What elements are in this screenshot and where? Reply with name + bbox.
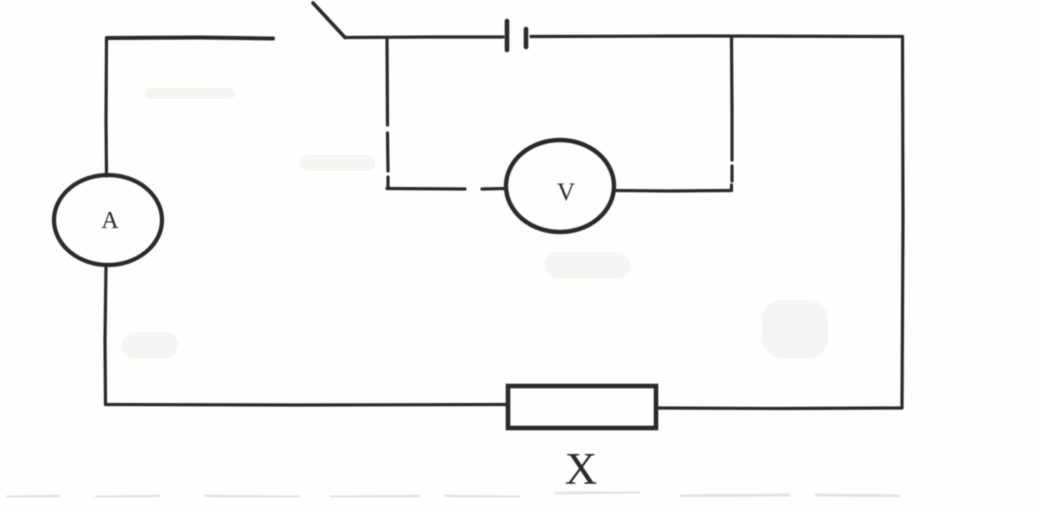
voltmeter V1	[506, 140, 614, 232]
wire right vertical	[902, 37, 903, 409]
wire voltmeter-branch left horizontal	[387, 187, 505, 191]
battery B1 long plate	[505, 21, 510, 50]
wire top right of battery	[531, 34, 903, 38]
svg-text:V: V	[557, 179, 575, 206]
wire voltmeter-branch right vertical	[730, 37, 734, 191]
wire left vertical lower	[105, 265, 106, 404]
wire left vertical upper	[104, 38, 108, 176]
wire bottom-right horizontal	[657, 406, 901, 410]
ammeter A1	[54, 175, 162, 265]
svg-text:A: A	[101, 208, 119, 234]
photocopy artifact line bottom	[6, 492, 900, 497]
photocopy artifact smudges	[122, 88, 828, 358]
wire top-left horizontal	[107, 38, 273, 39]
wire bottom horizontal	[106, 403, 507, 407]
svg-text:X: X	[565, 444, 598, 494]
resistor X box	[508, 386, 656, 428]
wire voltmeter-branch left vertical	[387, 38, 388, 186]
battery B1 short plate	[524, 29, 529, 47]
wire switch to battery	[345, 35, 503, 39]
wire voltmeter-branch right horizontal	[615, 189, 731, 193]
switch S1 blade	[313, 3, 345, 38]
